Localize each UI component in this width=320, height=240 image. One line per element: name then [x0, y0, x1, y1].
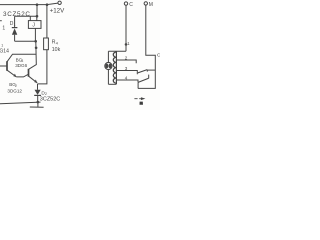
wire relay box top leads	[30, 16, 37, 20]
wire tap3	[116, 71, 137, 75]
diode D2 top lead	[37, 84, 39, 90]
wire horizontal to D1 cathode	[15, 15, 37, 17]
switch blade upper	[138, 70, 147, 73]
terminal C circle	[124, 2, 127, 5]
wire D1 anode to relay bottom node	[15, 40, 36, 42]
wire BG3 base	[0, 65, 7, 67]
wire terminal C down lead	[125, 5, 127, 51]
annotation blob glyph	[140, 102, 144, 105]
wire R4 top lead	[46, 5, 48, 38]
diode D1 anode lead	[14, 35, 16, 42]
wire from rail down to relay node	[36, 5, 38, 17]
wire R4 bottom lead	[37, 50, 47, 84]
svg-text:C: C	[157, 52, 160, 58]
svg-text:4: 4	[125, 76, 128, 81]
wire tap4	[116, 80, 138, 82]
wire terminal M path	[138, 5, 155, 88]
wire relay box bottom lead	[34, 28, 36, 41]
transformer primary left branch	[107, 51, 109, 84]
node junction D2 / bottom rail	[37, 101, 40, 104]
terminal +12V circle	[58, 1, 61, 4]
lamp indicator circle	[105, 62, 112, 69]
svg-text:1: 1	[14, 23, 16, 27]
svg-text:+12V: +12V	[50, 8, 65, 15]
transistor BG3 bar	[6, 61, 8, 71]
transistor BG2 bar	[28, 69, 30, 77]
svg-text:1: 1	[1, 43, 3, 47]
svg-text:3DG6: 3DG6	[15, 63, 27, 68]
left-edge cut text dash	[0, 19, 2, 22]
svg-text:3DG12: 3DG12	[7, 88, 22, 93]
dashed arrow annotation	[134, 98, 141, 100]
switch K pivot stub	[137, 82, 139, 88]
transformer primary loop bottom	[108, 83, 116, 85]
svg-text:3CZ52C: 3CZ52C	[40, 96, 61, 102]
wire collector bus vertical	[35, 41, 38, 64]
transistor BG2 emitter	[29, 76, 37, 83]
transformer winding coil bumps	[113, 52, 116, 83]
wire BG3 collector	[7, 54, 36, 61]
wire bottom rail	[0, 102, 41, 104]
node junction on rail (R4 branch)	[46, 3, 49, 6]
wire BG3 emitter to BG2 base	[16, 74, 28, 77]
svg-text:10k: 10k	[52, 47, 61, 53]
transformer winding baseline	[115, 51, 117, 84]
ground bar	[30, 106, 44, 108]
switch upper contact tick	[146, 70, 148, 72]
switch lower contact tick	[148, 75, 150, 79]
relay J box	[28, 21, 41, 29]
svg-text:M: M	[149, 2, 153, 8]
svg-text:C: C	[129, 2, 133, 8]
diode D1 symbol	[12, 27, 18, 29]
terminal M circle	[144, 2, 147, 5]
node junction relay top	[36, 15, 39, 18]
transformer primary loop top	[108, 50, 126, 52]
svg-text:4: 4	[56, 41, 58, 45]
node junction on C lead	[125, 43, 128, 46]
switch blade lower	[138, 78, 149, 82]
node junction D1/relay	[34, 40, 37, 43]
svg-text:G14: G14	[0, 49, 9, 55]
diode D2 bottom lead	[37, 96, 39, 102]
diode D1 (cathode lead)	[14, 16, 16, 27]
diode D2 symbol	[35, 90, 41, 95]
node junction on collector bus	[35, 47, 38, 50]
svg-text:1: 1	[2, 25, 5, 31]
wire tap2	[116, 60, 136, 63]
node junction on rail (relay branch)	[36, 3, 39, 6]
wire top +12V rail	[0, 3, 58, 5]
svg-text:3CZ52C: 3CZ52C	[3, 11, 31, 18]
svg-text:3: 3	[125, 66, 128, 71]
transistor BG2 collector	[29, 64, 37, 69]
wire switch upper common to M rail	[147, 69, 155, 71]
ground stub	[37, 102, 39, 107]
svg-text:2: 2	[125, 56, 128, 61]
transistor BG3 emitter	[7, 70, 16, 77]
resistor R4 box	[44, 38, 49, 50]
